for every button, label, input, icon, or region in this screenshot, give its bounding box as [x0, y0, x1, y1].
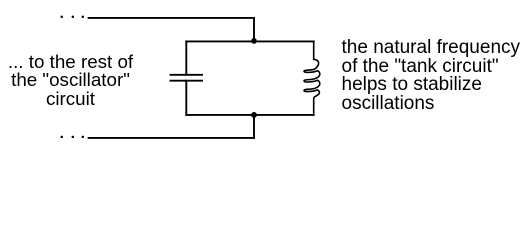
inductor L1 [304, 41, 320, 115]
wire: tank bottom [186, 114, 313, 116]
capacitor C1 bottom plate [171, 80, 203, 82]
label: the natural frequency of the "tank circuit" helps to stabilize oscillations [342, 39, 521, 114]
node B: bottom lead dots [61, 136, 84, 138]
node A: top lead dots [61, 16, 84, 18]
wire: top connector vertical [253, 18, 255, 42]
wire: left lower [185, 81, 187, 115]
wire: tank top [186, 40, 313, 42]
wire: bottom connector vertical [253, 115, 255, 138]
wire: top lead horizontal [89, 17, 254, 19]
wire: bottom lead horizontal [89, 137, 254, 139]
node: bottom junction [251, 112, 257, 118]
capacitor C1 top plate [171, 74, 203, 76]
node: top junction [251, 38, 257, 44]
label: ... to the rest of the "oscillator" circuit [0, 53, 141, 108]
wire: left upper [185, 41, 187, 74]
